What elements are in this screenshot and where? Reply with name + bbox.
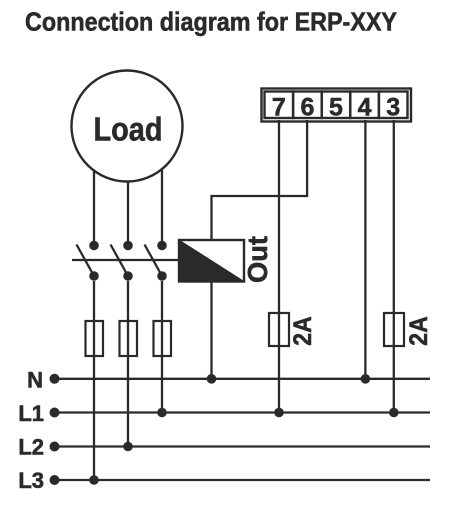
wire fuse F2 to L2 (127, 356, 129, 447)
junction relay out on N (207, 374, 217, 384)
wire load phase 1 (93, 170, 95, 241)
junction phase 1 on L3 (89, 475, 99, 485)
fuse F1 (86, 281, 104, 356)
svg-text:N: N (27, 368, 43, 393)
load M1 (72, 71, 183, 182)
wire fuse F1 to L3 (93, 356, 95, 480)
fuse F3 (154, 281, 172, 356)
net L3 (18, 468, 430, 493)
svg-text:4: 4 (358, 94, 372, 122)
svg-text:6: 6 (300, 94, 314, 122)
svg-text:Connection diagram for ERP-XXY: Connection diagram for ERP-XXY (25, 7, 397, 37)
svg-text:5: 5 (329, 94, 343, 122)
svg-text:L3: L3 (18, 468, 44, 493)
junction phase 3 on L1 (157, 408, 167, 418)
junction terminal 4 on N (361, 374, 371, 384)
switch S2 (111, 241, 133, 281)
net N (27, 368, 430, 393)
svg-text:2A: 2A (289, 316, 317, 346)
relay output U1 (179, 236, 273, 283)
wire load phase 2 (127, 181, 129, 241)
title (25, 7, 397, 37)
fuse F4 2A (269, 313, 317, 346)
svg-text:7: 7 (272, 94, 286, 122)
net L2 (18, 435, 430, 460)
switch S1 (77, 241, 99, 281)
actuator coupling wire (72, 259, 179, 261)
svg-text:Load: Load (94, 112, 163, 149)
wire relay top to terminal 6 (212, 120, 308, 240)
wire fuse F5 to L1 (393, 346, 395, 413)
junction phase 2 on L2 (123, 442, 133, 452)
svg-text:3: 3 (386, 94, 400, 122)
wire terminal 7 to fuse F4 (278, 120, 280, 313)
svg-text:Out: Out (242, 236, 273, 283)
net L1 (18, 401, 430, 426)
wire relay bottom to N (210, 282, 212, 379)
wire terminal 3 to fuse F5 (393, 120, 395, 313)
wire load phase 3 (161, 169, 163, 242)
wire terminal 4 to N (364, 120, 366, 379)
junction fuse F4 on L1 (274, 408, 284, 418)
svg-text:L2: L2 (18, 435, 44, 460)
svg-text:L1: L1 (18, 401, 44, 426)
wire fuse F3 to L1 (161, 356, 163, 413)
junction fuse F5 on L1 (389, 408, 399, 418)
svg-text:2A: 2A (405, 316, 433, 346)
fuse F5 2A (384, 313, 433, 346)
fuse F2 (120, 281, 138, 356)
terminal block X1 (262, 89, 412, 122)
wire fuse F4 to L1 (278, 346, 280, 413)
switch S3 (145, 241, 167, 281)
